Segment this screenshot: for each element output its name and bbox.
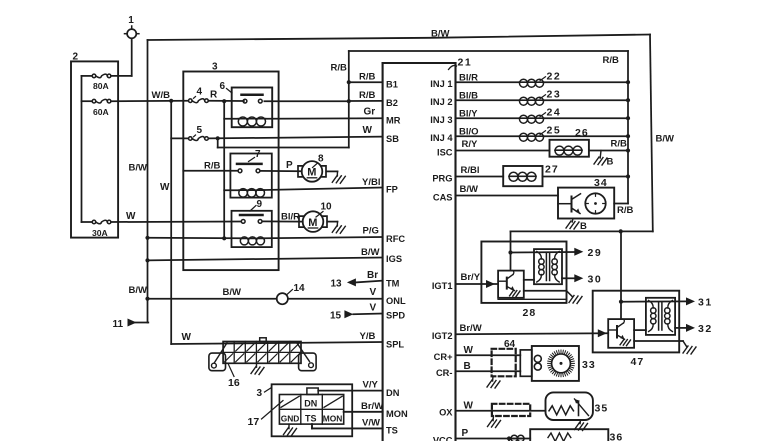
ground inside igniter 28 <box>510 290 520 296</box>
ground motor 10 <box>332 225 345 233</box>
wire B/W right vertical <box>650 35 674 232</box>
svg-text:W/B: W/B <box>152 90 171 101</box>
svg-text:22: 22 <box>547 71 562 83</box>
svg-text:W: W <box>160 182 170 193</box>
svg-text:Y/B: Y/B <box>360 331 376 342</box>
connector 14 <box>277 283 305 304</box>
motor 10 <box>299 202 332 232</box>
ECU pin B1 <box>386 79 398 89</box>
wire motor8 to ground <box>326 171 337 176</box>
junction W tap <box>169 99 173 103</box>
oxygen sensor 35 <box>546 392 609 420</box>
svg-text:3: 3 <box>212 62 218 73</box>
junction IGS <box>145 258 149 262</box>
svg-text:DN: DN <box>386 388 400 398</box>
svg-text:P: P <box>462 428 469 439</box>
svg-text:R/B: R/B <box>603 55 620 66</box>
igniter 28 coil windings <box>537 252 559 283</box>
svg-text:IGT1: IGT1 <box>432 281 453 291</box>
igniter 28 transistor <box>498 271 514 291</box>
wire CAS to R/B bus <box>614 204 633 217</box>
svg-text:PRG: PRG <box>432 173 452 183</box>
svg-text:11: 11 <box>113 319 124 330</box>
arrow 15 to ECU SPD <box>330 303 383 322</box>
injector 25 wire (Bl/O) <box>456 125 629 142</box>
svg-text:R/Y: R/Y <box>462 139 479 150</box>
relay 9 contact <box>240 215 263 223</box>
svg-text:3: 3 <box>257 388 263 399</box>
svg-text:5: 5 <box>197 125 203 136</box>
ECU pin INJ 4 <box>430 133 453 143</box>
relay 7 enclosure <box>230 149 271 198</box>
wire relay9 out to motor 10 (Bl/R) <box>263 212 303 223</box>
svg-text:B/W: B/W <box>431 28 450 39</box>
ECU pin B2 <box>386 98 398 108</box>
svg-text:33: 33 <box>582 359 596 371</box>
svg-text:B/W: B/W <box>129 163 148 174</box>
connector 17 outer box <box>272 384 353 436</box>
sensor 33 connector <box>520 350 532 376</box>
wire riser to igniter 47 <box>620 231 622 319</box>
junction injector 22 at R/B bus <box>626 80 630 84</box>
ECU box (21) <box>383 63 456 441</box>
svg-text:VCC: VCC <box>433 435 453 441</box>
svg-text:R/B: R/B <box>611 139 628 150</box>
svg-text:INJ 1: INJ 1 <box>430 79 452 89</box>
sensor 33 body <box>532 346 596 381</box>
wire collector riser igniter 28 <box>510 231 512 270</box>
svg-text:B/W: B/W <box>129 285 148 296</box>
svg-text:9: 9 <box>257 199 263 210</box>
shield at OX <box>492 404 530 421</box>
svg-text:SPD: SPD <box>386 311 405 321</box>
label R switch4 output <box>210 90 218 101</box>
ECU pin PRG <box>432 173 452 183</box>
ECU pin RFC <box>386 234 405 244</box>
ECU pin VCC <box>433 435 453 441</box>
igniter 28 coil box <box>534 249 562 284</box>
ECU pin CR+ <box>434 352 453 362</box>
svg-text:RFC: RFC <box>386 234 405 244</box>
svg-text:30A: 30A <box>92 228 108 238</box>
connector 16 right ear <box>297 343 316 371</box>
svg-text:B: B <box>607 157 614 168</box>
wire ECU CR+ (W) <box>456 345 521 356</box>
svg-text:IGT2: IGT2 <box>432 331 453 341</box>
ECU pin IGT1 <box>432 281 453 291</box>
svg-text:TM: TM <box>386 278 400 288</box>
wire B/W left vertical <box>129 40 148 323</box>
svg-text:ISC: ISC <box>437 147 453 157</box>
wire igniter 28 emitter return <box>524 291 573 297</box>
ground B at CAS <box>566 219 587 233</box>
svg-text:CAS: CAS <box>433 192 453 202</box>
svg-text:21: 21 <box>458 57 473 69</box>
svg-text:OX: OX <box>439 408 453 418</box>
ground shield OX <box>488 420 501 428</box>
wire SB branch down <box>218 138 349 147</box>
fuse box internal bus wire <box>81 76 83 222</box>
svg-text:23: 23 <box>547 89 562 101</box>
wire R/B into relay 7 <box>183 161 237 172</box>
svg-text:4: 4 <box>197 87 203 98</box>
svg-text:64: 64 <box>504 339 516 350</box>
svg-text:SB: SB <box>386 134 399 144</box>
ECU pin OX <box>439 408 453 418</box>
fuse F1 80A <box>82 74 111 91</box>
svg-text:31: 31 <box>698 297 713 309</box>
svg-text:Bl/R: Bl/R <box>459 72 478 83</box>
wire ECU CAS (B/W) <box>456 184 559 196</box>
svg-text:TS: TS <box>305 413 317 423</box>
wire transistor to coil 47 <box>634 329 646 331</box>
connector 17 grid <box>279 395 343 425</box>
wire IGT1 (Br/Y) <box>456 272 499 288</box>
igniter 28 box <box>481 242 566 320</box>
svg-text:R/B: R/B <box>204 161 221 172</box>
svg-text:B/W: B/W <box>656 134 675 145</box>
node 1 battery terminal <box>125 15 139 41</box>
wire W to ECU SPL (Y/B) <box>171 331 382 344</box>
igniter 28 transistor box <box>498 271 524 298</box>
wire R/B to ECU B1 <box>349 72 383 83</box>
junction injector 23 at R/B bus <box>626 98 630 102</box>
svg-text:B: B <box>580 221 587 232</box>
junction relay9 coil lead <box>222 236 226 240</box>
svg-text:W: W <box>464 401 474 412</box>
svg-text:30: 30 <box>588 273 603 285</box>
wire to arrow 32 <box>675 323 713 335</box>
svg-text:R/Bl: R/Bl <box>461 165 480 176</box>
svg-text:P: P <box>286 160 293 171</box>
wire to arrow 29 <box>511 247 603 259</box>
svg-text:16: 16 <box>228 377 240 389</box>
injector 22 wire (Bl/R) <box>456 71 629 88</box>
ECU pin IGS <box>386 254 402 264</box>
svg-text:26: 26 <box>575 127 589 139</box>
svg-text:36: 36 <box>610 432 624 441</box>
junction coil feed top <box>222 99 226 103</box>
wire W vertical from W/B <box>160 101 171 344</box>
wire transistor to coil 28 <box>524 279 534 281</box>
svg-text:GND: GND <box>281 413 300 423</box>
wire relay7 coil to ECU FP (Y/Bl) <box>265 177 383 190</box>
wire ECU PRG (R/Bl) <box>456 165 504 177</box>
wire relay7 out to motor 8 (P) <box>261 160 302 171</box>
ground igniter 47 <box>683 346 696 354</box>
wire B/W to ECU ONL <box>148 287 383 299</box>
wire relay6 contact out to R/B node <box>264 100 348 102</box>
svg-text:B2: B2 <box>386 98 398 108</box>
wire ECU CR- (B) <box>456 361 521 372</box>
svg-text:R/B: R/B <box>359 72 376 83</box>
svg-text:35: 35 <box>595 403 609 415</box>
wire to arrow 31 <box>621 297 713 309</box>
wire relay7 coil left lead <box>224 189 239 191</box>
svg-text:15: 15 <box>330 310 342 321</box>
wire ECU VCC (P) <box>456 428 531 439</box>
junction injector 24 at R/B bus <box>626 116 630 120</box>
svg-text:B/W: B/W <box>223 287 242 298</box>
svg-text:M: M <box>307 167 316 179</box>
svg-text:6: 6 <box>220 81 226 92</box>
junction injector 25 at R/B bus <box>626 134 630 138</box>
wire ECU ISC (R/Y) <box>456 139 550 151</box>
junction at B/W <box>145 236 149 240</box>
wire conn17 DN to ECU (V/Y) <box>318 380 382 391</box>
ground igniter 28 <box>569 296 582 304</box>
wire B/W to ECU IGS <box>148 247 383 261</box>
ECU pin ONL <box>386 296 406 306</box>
svg-text:TS: TS <box>386 426 398 436</box>
relay 6 enclosure <box>220 81 273 127</box>
svg-text:Br/W: Br/W <box>361 401 383 412</box>
svg-text:10: 10 <box>321 202 333 213</box>
ECU pin CR- <box>436 368 453 378</box>
svg-text:M: M <box>308 217 317 229</box>
junction PRG at bus <box>626 174 630 178</box>
svg-text:INJ 2: INJ 2 <box>430 97 452 107</box>
svg-text:14: 14 <box>294 283 306 294</box>
svg-text:IGS: IGS <box>386 254 402 264</box>
ECU pin MR <box>386 116 401 126</box>
igniter 47 transistor box <box>608 319 634 348</box>
svg-text:INJ 3: INJ 3 <box>430 115 452 125</box>
svg-text:CR-: CR- <box>436 368 453 378</box>
ECU pin INJ 1 <box>430 79 452 89</box>
relay 6 contact <box>242 95 263 103</box>
igniter 28 inner bottom wire <box>498 298 566 300</box>
svg-text:W: W <box>182 332 192 343</box>
ECU pin FP <box>386 185 398 195</box>
wire R/B top run <box>331 51 629 74</box>
arrow 13 to ECU TM <box>331 270 383 289</box>
connector 16 left ear <box>209 343 227 371</box>
svg-text:Bl/R: Bl/R <box>281 212 300 223</box>
ECU pin ISC <box>437 147 453 157</box>
svg-text:24: 24 <box>547 107 562 119</box>
purge solenoid 27 <box>503 164 558 187</box>
svg-text:MON: MON <box>323 413 343 423</box>
ground connector 16 <box>251 363 264 374</box>
ground oxygen sensor <box>575 420 588 431</box>
label 16 <box>228 365 240 390</box>
junction ISC at bus <box>626 148 630 152</box>
junction VCC <box>507 436 511 441</box>
svg-text:60A: 60A <box>93 107 109 117</box>
svg-text:17: 17 <box>248 416 260 428</box>
igniter 47 coil box <box>646 298 675 335</box>
svg-text:7: 7 <box>255 149 261 160</box>
svg-text:R: R <box>210 90 218 101</box>
ground connector 17 <box>284 424 297 435</box>
wire R/B riser <box>348 51 350 148</box>
CAS unit 34 box <box>558 177 614 219</box>
ECU pin INJ 2 <box>430 97 452 107</box>
svg-text:Gr: Gr <box>364 107 376 118</box>
wire relay6 coil to ECU MR (Gr) <box>266 107 383 119</box>
svg-text:Y/Bl: Y/Bl <box>362 177 380 188</box>
wire W/B 60A to switch 4 <box>111 90 188 101</box>
wire switch4 to relay 6 <box>208 100 244 102</box>
ECU pin DN <box>386 388 400 398</box>
ECU pin INJ 3 <box>430 115 452 125</box>
svg-text:B/W: B/W <box>460 184 479 195</box>
ground motor 8 <box>332 175 345 183</box>
shield 64 <box>492 339 516 381</box>
svg-text:B/W: B/W <box>361 247 380 258</box>
junction igniter 28 primary <box>508 250 512 254</box>
switch 4 <box>189 87 209 103</box>
label 17 <box>248 401 284 429</box>
svg-text:W: W <box>126 211 136 222</box>
label 3 connector17 <box>257 388 272 399</box>
svg-text:Bl/B: Bl/B <box>459 90 478 101</box>
ECU pin TM <box>386 278 400 288</box>
fuse box 2 outline <box>71 52 118 238</box>
svg-text:32: 32 <box>698 323 713 335</box>
wire node1 to 80A fuse <box>111 38 132 76</box>
svg-text:47: 47 <box>631 356 645 368</box>
relay 7 coil <box>239 189 265 198</box>
wire 30A W feed to relay 9 <box>111 211 241 222</box>
wire R/B to ECU B2 <box>349 90 383 101</box>
igniter 47 coil windings <box>649 301 673 332</box>
ground B at ISC <box>594 151 614 168</box>
svg-text:W: W <box>464 345 474 356</box>
svg-text:DN: DN <box>304 398 317 408</box>
ECU pin IGT2 <box>432 331 453 341</box>
wire relay6 coil left lead <box>224 118 238 120</box>
svg-text:27: 27 <box>545 164 559 176</box>
svg-text:V/W: V/W <box>362 418 380 429</box>
igniter 47 transistor <box>608 319 624 339</box>
junction igniter 47 primary <box>619 300 623 304</box>
wire PRG to R/B bus <box>543 176 629 178</box>
wire B/W lower right run y=231 <box>511 230 653 232</box>
svg-text:1: 1 <box>128 15 134 26</box>
wire B/W top run <box>148 28 651 40</box>
svg-text:Bl/Y: Bl/Y <box>459 108 478 119</box>
svg-text:8: 8 <box>318 154 324 165</box>
svg-text:80A: 80A <box>93 81 109 91</box>
svg-text:INJ 4: INJ 4 <box>430 133 453 143</box>
coil on VCC wire <box>511 435 524 441</box>
svg-text:V: V <box>370 303 377 314</box>
resistor unit 36 <box>530 429 623 441</box>
svg-text:13: 13 <box>331 278 343 289</box>
svg-text:V: V <box>370 287 377 298</box>
wire W to switch 5 <box>171 137 188 139</box>
injector 24 wire (Bl/Y) <box>456 107 629 124</box>
wire ECU OX (W) <box>456 401 546 412</box>
connector 16 strip <box>223 338 301 364</box>
injector 23 wire (Bl/B) <box>456 89 629 106</box>
motor 8 fuel pump <box>298 154 326 182</box>
wire to arrow 30 <box>562 273 602 285</box>
svg-text:25: 25 <box>547 125 562 137</box>
svg-text:R/B: R/B <box>331 63 348 74</box>
junction R/B at B1 <box>347 80 351 84</box>
svg-text:MON: MON <box>386 409 408 419</box>
ECU pin MON <box>386 409 408 419</box>
svg-text:W: W <box>363 125 373 136</box>
svg-text:R/B: R/B <box>359 90 376 101</box>
ECU pin TS <box>386 426 398 436</box>
svg-text:Br/Y: Br/Y <box>461 272 481 283</box>
wire IGT2 (Br/W) <box>456 323 609 337</box>
sensor 33 pickup coil <box>534 355 541 370</box>
svg-text:ONL: ONL <box>386 296 406 306</box>
ECU pin SPD <box>386 311 405 321</box>
ECU pin SB <box>386 134 399 144</box>
svg-text:R/B: R/B <box>617 205 634 216</box>
junction R/B at B2 <box>347 99 351 103</box>
wire conn17 TS to ECU (V/W) <box>312 418 383 429</box>
svg-text:FP: FP <box>386 185 398 195</box>
svg-text:CR+: CR+ <box>434 352 453 362</box>
svg-text:2: 2 <box>73 52 79 63</box>
svg-text:B: B <box>464 361 471 372</box>
label 21 <box>449 57 473 70</box>
connector 17 tab <box>307 388 318 395</box>
svg-text:SPL: SPL <box>386 339 404 349</box>
wire igniter 47 emitter return <box>634 341 687 347</box>
svg-text:B1: B1 <box>386 79 398 89</box>
wire motor10 to ground <box>327 222 337 226</box>
wire switch5 to ECU SB (W) <box>209 125 383 138</box>
svg-text:P/G: P/G <box>363 226 379 237</box>
svg-text:34: 34 <box>594 177 608 189</box>
svg-text:Br: Br <box>367 270 378 281</box>
junction ONL <box>145 297 149 301</box>
svg-text:29: 29 <box>588 247 603 259</box>
switch 5 <box>189 125 209 141</box>
svg-text:V/Y: V/Y <box>363 380 379 391</box>
ground shield 64 <box>487 380 500 388</box>
relay 7 contact <box>237 164 262 173</box>
fuse F3 30A <box>82 220 111 238</box>
svg-text:Br/W: Br/W <box>460 323 482 334</box>
sensor 33 toothed rotor <box>548 350 575 377</box>
ECU pin SPL <box>386 339 404 349</box>
junction B/W to igniter 47 <box>619 229 623 233</box>
arrow 11 terminal <box>113 319 149 331</box>
CAS transistor <box>558 194 581 214</box>
ECU pin CAS <box>433 192 453 202</box>
ground inside igniter 47 <box>620 339 630 345</box>
relay 9 enclosure <box>232 199 272 247</box>
svg-text:MR: MR <box>386 116 401 126</box>
igniter 47 box <box>593 291 680 368</box>
relay 9 coil <box>240 237 264 245</box>
ISC solenoid 26 <box>550 127 589 157</box>
relay 6 coil <box>238 117 265 126</box>
fuse F2 60A <box>82 99 111 117</box>
wire R/B right bus <box>627 51 629 204</box>
wire ISC to R/B bus <box>589 139 628 151</box>
CAS rotor disc <box>585 193 605 213</box>
wire relay9 coil to ECU RFC (P/G) <box>265 226 383 239</box>
junction SB branch <box>216 136 220 140</box>
svg-text:28: 28 <box>523 307 537 319</box>
svg-text:Bl/O: Bl/O <box>459 126 479 137</box>
junction box 3 outline <box>183 62 278 271</box>
wire B/W to relay coils y=238 <box>148 237 241 240</box>
wire coil feed vertical x=224 <box>223 101 225 238</box>
wire conn17 MON to ECU (Br/W) <box>344 401 383 412</box>
